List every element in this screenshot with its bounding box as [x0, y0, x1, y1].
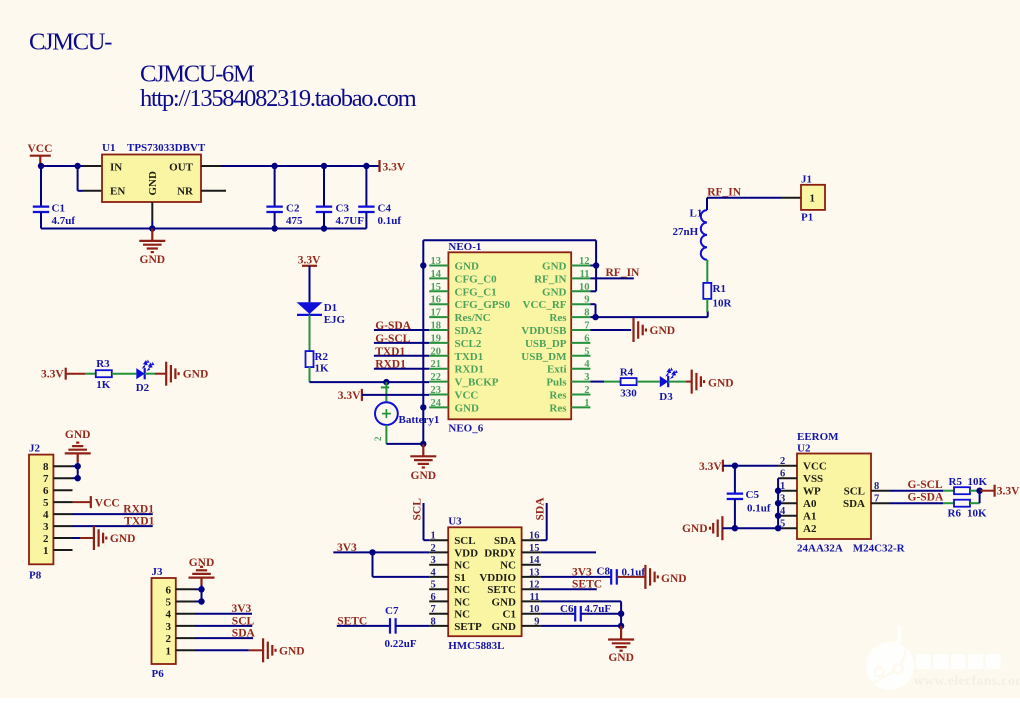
wire corner to L1	[706, 198, 708, 210]
U3 pin 10 C1	[522, 613, 541, 615]
junction	[383, 379, 389, 385]
svg-text:2: 2	[780, 456, 785, 467]
svg-text:14: 14	[529, 555, 540, 566]
U3 pin 14 NC	[522, 564, 541, 566]
junction	[420, 404, 426, 410]
svg-text:23: 23	[431, 385, 442, 396]
capacitor C1	[40, 166, 42, 207]
NEO-1 pin 2 Res	[571, 394, 590, 396]
NEO-1 pin 6 USB_DP	[571, 342, 590, 344]
svg-text:U2: U2	[797, 443, 811, 455]
J2 pin 1	[53, 549, 72, 551]
svg-text:1: 1	[43, 545, 49, 557]
svg-text:VCC: VCC	[455, 390, 479, 402]
U1 pin GND stub	[151, 202, 153, 221]
svg-text:NC: NC	[454, 596, 470, 608]
svg-text:C1: C1	[52, 203, 65, 215]
wire pin11 GND to vertical	[541, 600, 621, 602]
svg-text:R2: R2	[315, 351, 329, 363]
svg-text:EN: EN	[110, 186, 125, 198]
svg-text:WP: WP	[803, 486, 821, 498]
wire R3 to D2	[112, 373, 137, 375]
svg-text:9: 9	[584, 295, 589, 306]
svg-text:RXD1: RXD1	[123, 504, 154, 516]
svg-text:RF_IN: RF_IN	[606, 267, 641, 279]
svg-text:5: 5	[43, 497, 49, 509]
junction	[775, 513, 781, 519]
watermark logo	[866, 627, 914, 690]
net label G-SDA + wire	[890, 502, 943, 504]
svg-text:13: 13	[529, 567, 540, 578]
resistor R1 10R	[703, 283, 711, 299]
svg-text:EJG: EJG	[324, 314, 346, 326]
junction	[775, 500, 781, 506]
NEO-1 pin 1 Res	[571, 406, 590, 408]
svg-text:http://13584082319.taobao.com: http://13584082319.taobao.com	[140, 85, 417, 112]
power port 3.3V (R5)	[980, 490, 995, 492]
svg-text:J3: J3	[152, 566, 164, 578]
svg-text:GND: GND	[682, 523, 708, 535]
junction	[775, 488, 781, 494]
junction	[38, 163, 44, 169]
NEO-1 pin 13 GND	[429, 265, 448, 267]
svg-text:P6: P6	[152, 668, 165, 680]
svg-text:L1: L1	[690, 208, 703, 220]
net label G-SDA + wire	[374, 329, 429, 331]
svg-text:12: 12	[579, 256, 590, 267]
J3 pin 3	[176, 625, 195, 627]
svg-text:CFG_C1: CFG_C1	[455, 286, 497, 298]
svg-text:G-SCL: G-SCL	[908, 479, 943, 491]
svg-text:CJMCU-: CJMCU-	[29, 29, 112, 56]
svg-text:0.1uf: 0.1uf	[747, 503, 771, 515]
junction	[75, 475, 81, 481]
ground (U2)	[721, 516, 723, 540]
svg-text:RXD1: RXD1	[455, 364, 484, 376]
svg-text:3: 3	[43, 521, 49, 533]
svg-text:1K: 1K	[315, 363, 330, 375]
svg-text:GND: GND	[542, 286, 567, 298]
svg-text:4.7uF: 4.7uF	[585, 603, 612, 615]
svg-text:4.7uf: 4.7uf	[52, 215, 76, 227]
resistor R4 330	[621, 378, 637, 385]
net label RF_IN (pin11) + wire	[590, 277, 633, 279]
svg-text:10K: 10K	[967, 508, 987, 520]
J3 pin 5	[176, 601, 195, 603]
svg-text:A0: A0	[803, 498, 817, 510]
svg-text:Res: Res	[549, 312, 567, 324]
svg-text:11: 11	[580, 269, 590, 280]
wire pin10 to loop	[590, 290, 596, 292]
svg-text:Res: Res	[549, 402, 567, 414]
U1 pin OUT stub	[201, 165, 221, 167]
J3 pin 2	[176, 637, 195, 639]
net label SDA + wire (J3 pin2)	[195, 637, 253, 639]
ground under U1	[151, 229, 153, 241]
U2 pin 1 WP	[778, 490, 797, 492]
junction	[363, 163, 369, 169]
svg-text:G-SCL: G-SCL	[375, 333, 410, 345]
svg-text:R4: R4	[620, 366, 634, 378]
svg-text:GND: GND	[183, 369, 209, 381]
svg-text:C3: C3	[336, 203, 350, 215]
junction	[74, 163, 80, 169]
wire DRDY stub (pin15)	[541, 551, 596, 553]
svg-text:C1: C1	[503, 609, 516, 621]
junction	[976, 488, 982, 494]
wire 3.3V to pin 23	[362, 394, 429, 396]
wire 3.3V to D1	[309, 266, 311, 303]
svg-text:VSS: VSS	[803, 473, 823, 485]
svg-text:8: 8	[43, 461, 49, 473]
net label SCL vertical + wire	[423, 503, 425, 540]
svg-text:NC: NC	[500, 560, 516, 572]
junction	[149, 225, 155, 231]
svg-text:VCC: VCC	[28, 143, 53, 155]
U2 pin 6 VSS	[778, 477, 797, 479]
svg-text:4.7UF: 4.7UF	[336, 215, 365, 227]
capacitor C7 0.22uF	[389, 618, 391, 634]
junction	[198, 586, 204, 592]
wire L1 to R1	[706, 260, 708, 283]
junction	[198, 598, 204, 604]
svg-text:GND: GND	[492, 621, 517, 633]
connector J2 body	[29, 455, 53, 565]
svg-text:TPS73033DBVT: TPS73033DBVT	[127, 142, 206, 154]
svg-text:GND: GND	[542, 261, 567, 273]
svg-text:4: 4	[584, 359, 590, 370]
net label TXD1 + wire	[374, 355, 429, 357]
J2 pin 6	[53, 489, 72, 491]
svg-text:GND: GND	[65, 429, 91, 441]
svg-text:9: 9	[534, 616, 539, 627]
U3 pin 11 GND	[522, 600, 541, 602]
svg-text:16: 16	[431, 295, 442, 306]
svg-text:14: 14	[431, 269, 442, 280]
LED D3	[660, 376, 668, 387]
svg-text:10K: 10K	[968, 476, 988, 488]
svg-text:R5: R5	[949, 476, 963, 488]
svg-text:1K: 1K	[96, 379, 111, 391]
svg-text:GND: GND	[492, 596, 517, 608]
U3 pin 12 SETC	[522, 588, 541, 590]
capacitor C5 0.1uf	[734, 466, 736, 494]
IC NEO-1 body	[448, 252, 571, 419]
gnd rail wire	[41, 228, 366, 230]
J2 pin 2	[53, 537, 72, 539]
svg-text:8: 8	[584, 308, 589, 319]
svg-text:7: 7	[43, 473, 49, 485]
resistor R6 10K	[954, 500, 970, 507]
svg-text:24: 24	[431, 398, 442, 409]
net label SETC + wire (U3 SETP)	[337, 625, 390, 627]
svg-text:U1: U1	[102, 142, 115, 154]
svg-text:M24C32-R: M24C32-R	[853, 543, 906, 555]
net label RXD1 + wire	[374, 368, 429, 370]
NEO-1 pin 5 USB_DM	[571, 355, 590, 357]
net label 3V3 + wire (VDDIO)	[541, 576, 611, 578]
junction	[775, 525, 781, 531]
svg-text:3.3V: 3.3V	[699, 461, 722, 473]
svg-text:IN: IN	[110, 161, 122, 173]
svg-text:C8: C8	[597, 565, 611, 577]
NEO-1 pin 16 CFG_GPS0	[429, 303, 448, 305]
svg-text:4: 4	[166, 609, 172, 621]
svg-text:17: 17	[431, 308, 442, 319]
svg-text:TXD1: TXD1	[375, 346, 405, 358]
U3 pin 7 NC	[429, 613, 448, 615]
svg-text:5: 5	[584, 346, 589, 357]
svg-text:475: 475	[286, 215, 303, 227]
op-amp U1 TPS73033DBVT body	[102, 155, 201, 203]
junction	[75, 463, 81, 469]
power port 3.3V out	[378, 160, 380, 172]
wire C8 to gnd	[617, 576, 631, 578]
net label G-SCL + wire	[890, 490, 943, 492]
svg-text:3V3: 3V3	[337, 542, 357, 554]
NEO-1 pin 10 GND	[571, 290, 590, 292]
svg-text:VCC_RF: VCC_RF	[523, 299, 567, 311]
U3 pin 3 NC	[429, 564, 448, 566]
svg-text:8: 8	[431, 616, 436, 627]
U3 pin 9 GND	[522, 625, 541, 627]
svg-text:27nH: 27nH	[673, 226, 699, 238]
svg-text:RF_IN: RF_IN	[707, 186, 742, 198]
U3 pin 2 VDD	[429, 551, 448, 553]
NEO-1 pin 8 Res	[571, 316, 590, 318]
svg-text:R6: R6	[948, 508, 962, 520]
svg-text:Res: Res	[549, 390, 567, 402]
ground (J3 pin1)	[195, 649, 249, 651]
svg-text:18: 18	[431, 321, 442, 332]
svg-text:SCL2: SCL2	[455, 338, 482, 350]
U3 pin 4 S1	[429, 576, 448, 578]
junction	[618, 611, 624, 617]
svg-text:GND: GND	[650, 325, 676, 337]
NEO-1 pin 19 SCL2	[429, 342, 448, 344]
svg-text:U3: U3	[448, 516, 462, 528]
svg-text:SDA: SDA	[535, 497, 547, 521]
svg-text:P8: P8	[29, 570, 42, 582]
wire 3V3 to S1	[372, 552, 374, 577]
svg-text:6: 6	[780, 469, 785, 480]
NEO-1 pin 3 Puls	[571, 381, 590, 383]
wire EN branch	[77, 166, 79, 191]
svg-text:TXD1: TXD1	[124, 516, 154, 528]
svg-text:C6: C6	[560, 603, 574, 615]
U3 pin 6 NC	[429, 600, 448, 602]
svg-text:1: 1	[584, 398, 589, 409]
svg-text:4: 4	[431, 567, 437, 578]
svg-text:C5: C5	[746, 489, 760, 501]
svg-text:VCC: VCC	[803, 461, 827, 473]
IC U2 EEROM body	[797, 454, 871, 540]
svg-text:J2: J2	[29, 443, 41, 455]
svg-text:SDA: SDA	[232, 628, 256, 640]
NEO-1 pin 17 Res/NC	[429, 316, 448, 318]
svg-text:1: 1	[166, 645, 172, 657]
svg-text:R1: R1	[713, 283, 726, 295]
svg-text:DRDY: DRDY	[484, 547, 516, 559]
svg-text:0.1uf: 0.1uf	[378, 215, 402, 227]
svg-text:SCL: SCL	[232, 615, 255, 627]
wire R1 down	[706, 299, 708, 312]
wire battery to gnd net	[386, 443, 423, 445]
IC U3 HMC5883L body	[448, 527, 521, 636]
svg-text:1: 1	[431, 531, 436, 542]
capacitor C2	[274, 166, 276, 207]
svg-text:10R: 10R	[713, 298, 733, 310]
svg-text:CFG_C0: CFG_C0	[455, 273, 498, 285]
U3 pin 16 SDA	[522, 539, 541, 541]
svg-text:2: 2	[373, 436, 383, 441]
junction	[732, 463, 738, 469]
junction	[593, 262, 599, 268]
svg-text:GND: GND	[708, 378, 734, 390]
svg-text:J1: J1	[801, 174, 812, 186]
svg-text:VDDUSB: VDDUSB	[521, 325, 567, 337]
svg-text:D2: D2	[136, 382, 150, 394]
svg-text:GND: GND	[661, 573, 687, 585]
svg-text:2: 2	[43, 533, 49, 545]
NEO-1 pin 9 VCC_RF	[571, 303, 590, 305]
wire R4 to D3	[637, 381, 660, 383]
net label 3V3 + wire (J3 pin4)	[195, 613, 252, 615]
diode D1 EJG	[297, 302, 323, 314]
wire J3 pins 6,5 to gnd	[201, 585, 203, 602]
svg-text:21: 21	[431, 359, 442, 370]
NEO-1 pin 7 VDDUSB	[571, 329, 590, 331]
svg-text:6: 6	[584, 333, 589, 344]
NEO-1 pin 14 CFG_C0	[429, 277, 448, 279]
svg-text:NEO_6: NEO_6	[448, 423, 483, 435]
NEO-1 pin 20 TXD1	[429, 355, 448, 357]
svg-text:7: 7	[431, 604, 436, 615]
J2 pin 8	[53, 465, 72, 467]
wire 3.3V to R3	[66, 373, 85, 375]
J2 pin 3	[53, 525, 72, 527]
junction	[420, 262, 426, 268]
svg-text:C4: C4	[378, 203, 392, 215]
svg-text:2: 2	[166, 633, 172, 645]
U3 pin 15 DRDY	[522, 551, 541, 553]
svg-text:SDA2: SDA2	[455, 325, 483, 337]
wire pin3 to R4	[590, 381, 604, 383]
svg-text:SDA: SDA	[843, 498, 865, 510]
svg-text:3.3V: 3.3V	[41, 369, 64, 381]
svg-text:0.22uF: 0.22uF	[385, 638, 417, 650]
svg-text:2: 2	[431, 543, 436, 554]
svg-text:GND: GND	[147, 171, 159, 196]
U3 pin 8 SETP	[429, 625, 448, 627]
NEO-1 pin 21 RXD1	[429, 368, 448, 370]
svg-text:7: 7	[874, 494, 879, 505]
svg-text:12: 12	[529, 580, 540, 591]
svg-text:8: 8	[874, 481, 879, 492]
junction	[321, 163, 327, 169]
svg-text:GND: GND	[140, 254, 166, 266]
wire 3.3V to VCC	[723, 465, 778, 467]
U3 pin 1 SCL	[429, 539, 448, 541]
svg-text:RF_IN: RF_IN	[534, 273, 566, 285]
ground (J2 pin2)	[73, 537, 81, 539]
wire VCC to IN	[41, 165, 83, 167]
svg-text:D1: D1	[324, 302, 337, 314]
svg-text:Exti: Exti	[547, 364, 567, 376]
watermark text	[916, 654, 1001, 669]
capacitor C4	[365, 166, 367, 207]
wire R6 up to 3.3V	[970, 502, 980, 504]
svg-text:SCL: SCL	[412, 498, 424, 521]
U2 pin 3 A0	[778, 502, 797, 504]
svg-text:NC: NC	[454, 609, 470, 621]
svg-text:VDD: VDD	[454, 547, 478, 559]
svg-text:RXD1: RXD1	[375, 359, 406, 371]
svg-text:NEO-1: NEO-1	[448, 241, 481, 253]
svg-text:HMC5883L: HMC5883L	[448, 640, 504, 652]
junction	[369, 549, 375, 555]
resistor R5 10K	[954, 487, 970, 494]
svg-text:3.3V: 3.3V	[997, 486, 1020, 498]
wire D2 to GND	[145, 373, 155, 375]
svg-text:OUT: OUT	[169, 161, 194, 173]
svg-text:USB_DM: USB_DM	[521, 351, 567, 363]
svg-text:CJMCU-6M: CJMCU-6M	[140, 60, 255, 87]
connector J1 body	[801, 185, 825, 210]
ground (D3)	[691, 370, 693, 394]
wire J2 pins 8,7 to gnd	[77, 463, 79, 478]
NEO-1 pin 23 VCC	[429, 394, 448, 396]
junction	[271, 163, 277, 169]
svg-text:3: 3	[166, 621, 172, 633]
U2 pin 5 A2	[778, 527, 797, 529]
wire pins 8-9 tie	[590, 303, 595, 305]
J2 pin 4	[53, 513, 72, 515]
ground (C8)	[644, 565, 646, 589]
svg-text:5: 5	[431, 580, 436, 591]
junction	[592, 314, 598, 320]
wire pin9 GND	[541, 625, 621, 627]
ground (U3)	[620, 626, 622, 639]
svg-text:Res/NC: Res/NC	[455, 312, 491, 324]
svg-text:20: 20	[431, 346, 442, 357]
svg-text:6: 6	[166, 584, 172, 596]
inductor L1 27nH	[701, 210, 707, 260]
J2 pin 5	[53, 501, 72, 503]
svg-text:SETC: SETC	[337, 615, 367, 627]
svg-text:Puls: Puls	[546, 377, 567, 389]
svg-text:3.3V: 3.3V	[383, 161, 406, 173]
battery Battery1	[381, 386, 389, 388]
NEO-1 pin 22 V_BCKP	[429, 381, 448, 383]
ground (D2)	[165, 362, 167, 386]
svg-text:NC: NC	[454, 584, 470, 596]
capacitor C6 4.7uF + wire (pin10 C1)	[541, 613, 575, 615]
svg-text:S1: S1	[454, 572, 466, 584]
svg-text:24AA32A: 24AA32A	[797, 543, 843, 555]
net label RXD1 + wire (J2 pin4)	[73, 513, 153, 515]
NEO-1 pin 18 SDA2	[429, 329, 448, 331]
svg-text:10: 10	[579, 282, 590, 293]
wire R5 to 3.3V	[970, 490, 980, 492]
J3 pin 6	[176, 588, 195, 590]
LED D2	[136, 368, 144, 379]
wire D1 to R2	[309, 315, 311, 351]
capacitor C8 0.1uf	[610, 569, 612, 585]
svg-text:3: 3	[584, 372, 589, 383]
svg-text:GND: GND	[110, 533, 136, 545]
wire RF_IN to J1	[707, 197, 781, 199]
